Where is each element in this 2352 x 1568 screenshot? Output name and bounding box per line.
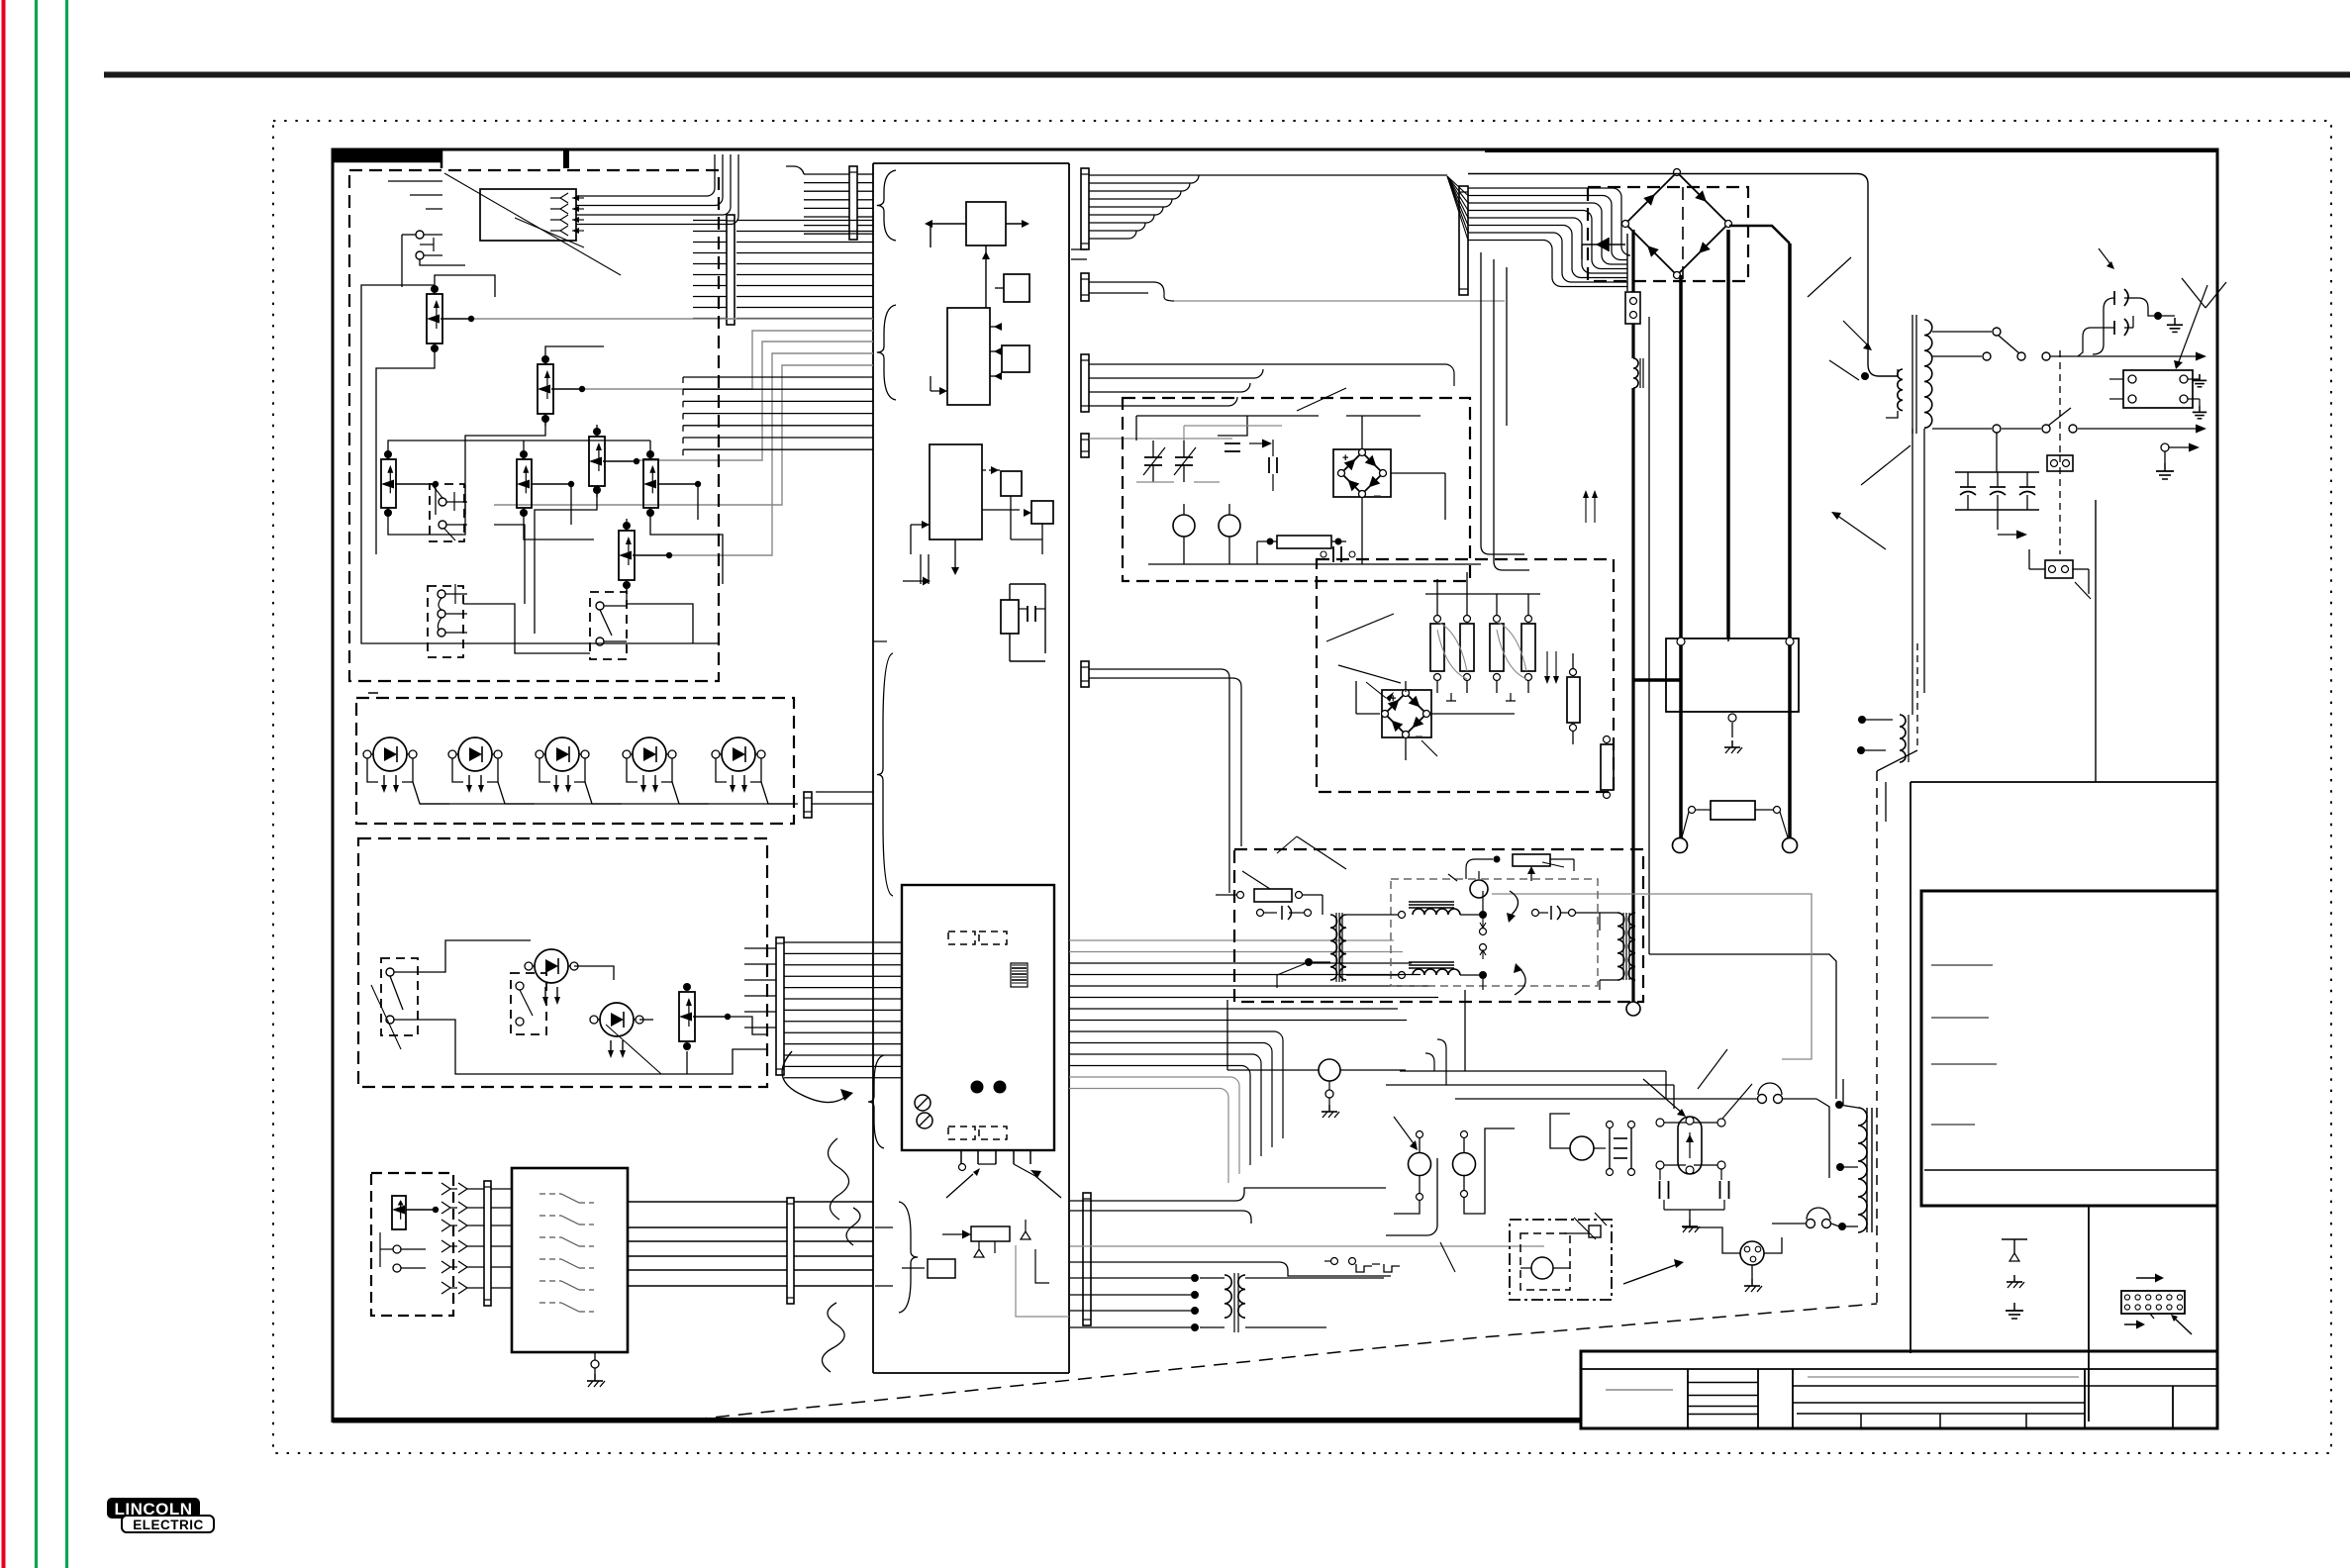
svg-text:ELECTRIC: ELECTRIC: [133, 1518, 204, 1532]
svg-text:+: +: [1342, 452, 1348, 464]
svg-text:_: _: [1373, 483, 1381, 497]
svg-text:_: _: [1415, 724, 1422, 737]
